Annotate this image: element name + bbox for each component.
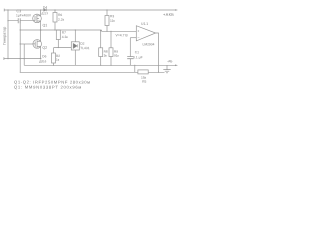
wire generator return net y=58.6 [4,58,41,60]
transistor Q1 internals [33,15,41,22]
transistor Q2 source lead [40,47,42,59]
resistor R9 bottom lead [110,57,112,66]
terminal tick top-left [3,9,5,12]
wire common rail A y=65.3 [24,64,176,66]
resistor R3 body [105,16,109,26]
svg-text:R6: R6 [58,13,62,17]
diode D4 on top rail [44,9,47,12]
resistor R3 bottom lead [106,26,108,32]
ground symbol [163,65,170,73]
wire left rail [7,10,9,59]
wire Q2 gate y=44 [20,43,33,45]
resistor R8 bottom lead [100,57,102,66]
wire top rail +AKB [4,9,177,11]
transistor Q2 internals [33,40,41,47]
svg-text:Q1: MM9N0338PT 200x96м: Q1: MM9N0338PT 200x96м [14,85,82,90]
svg-text:Генератор: Генератор [3,27,7,45]
resistor R9 top lead [110,31,112,48]
transistor Q1 body [33,14,42,23]
op-amp output wire [156,33,159,72]
svg-text:D4: D4 [43,6,47,10]
svg-text:R7: R7 [62,31,66,35]
svg-text:Д816: Д816 [39,59,46,63]
wire vertical x=24.2 gate net to rail A [23,44,25,65]
TL431 D2 internal symbol [73,43,77,48]
transistor Q1 source lead to Q2 drain [40,21,42,42]
svg-text:TL431: TL431 [80,46,90,50]
capacitor C3 plates [18,18,20,23]
resistor R3 top lead [106,10,108,16]
transistor Q2 body [33,40,42,49]
svg-text:0.1 μF: 0.1 μF [133,55,142,59]
resistor R6 body [53,13,57,23]
resistor R8 top lead [100,30,102,48]
svg-text:D2: D2 [80,42,84,46]
capacitor C1 bottom lead [129,59,131,65]
resistor R7 body [56,30,60,40]
resistor R5 branch wire [134,65,136,72]
svg-text:4.3к: 4.3к [62,35,69,39]
svg-text:Д213: Д213 [41,11,48,15]
svg-text:D6: D6 [42,54,46,58]
svg-text:1μFx400V: 1μFx400V [16,13,32,17]
op-amp U1.1 triangle [136,26,155,41]
capacitor C3 (1uF 400V) wiring [8,20,33,22]
svg-text:11к: 11к [110,19,115,23]
resistor R7 bottom lead [57,40,59,48]
arrowhead top right [175,9,178,11]
arrowhead rail A right [175,65,178,67]
resistor R2 leads [53,48,55,66]
svg-text:Q2: Q2 [42,46,47,50]
svg-text:+: + [137,29,139,33]
svg-text:LM2904: LM2904 [143,42,155,46]
svg-text:R3: R3 [110,14,114,18]
resistor R9 body [109,48,113,57]
capacitor C1 top lead [129,38,131,57]
TL431 D2 body [71,42,79,50]
capacitor C1 plates [127,57,133,59]
svg-text:-АБ: -АБ [167,59,172,63]
terminal tick bottom-left [3,57,5,60]
svg-text:3к: 3к [104,54,108,58]
transistor Q1 drain lead [40,10,42,16]
svg-text:91к: 91к [114,54,120,58]
resistor R8 body [99,48,103,57]
junction dots [7,9,159,73]
svg-text:+АКБ: +АКБ [163,12,174,17]
wire mid reference net y=30 [20,30,136,31]
svg-text:R5: R5 [142,80,146,84]
svg-text:V=4.7 В: V=4.7 В [116,33,129,37]
svg-text:C1: C1 [135,50,139,54]
wire vertical node A (x=19.5) [19,21,21,73]
svg-text:2.2к: 2.2к [58,18,65,22]
svg-text:U1.1: U1.1 [141,22,148,26]
TL431 D2 cathode lead [74,30,76,42]
resistor R6 leads [54,10,56,30]
wire ref divider y=47.5 [54,47,72,49]
svg-text:1к: 1к [56,58,60,62]
TL431 D2 anode lead [74,50,76,65]
svg-text:Q1: Q1 [43,23,48,27]
op-amp lower input wire [130,37,136,39]
wire ground bus B y=72.3 [20,71,164,73]
resistor R5 body [138,70,148,74]
resistor R2 body [52,53,56,63]
